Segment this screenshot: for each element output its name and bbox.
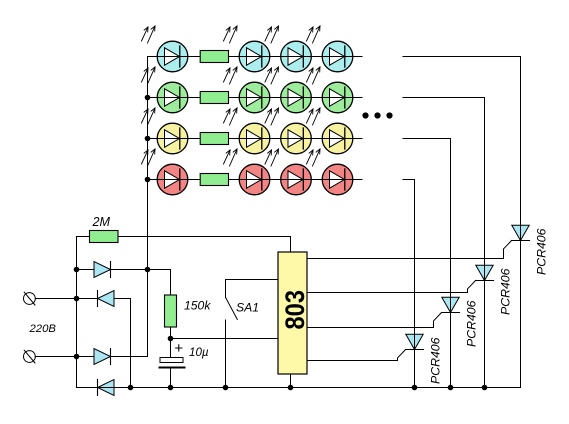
wire row3 LED2 to LED3: [270, 138, 281, 140]
svg-text:+: +: [174, 340, 183, 357]
switch SA1: [226, 280, 279, 388]
wire chip pin to VS3 gate: [307, 281, 476, 293]
LED HL4.1: [142, 149, 188, 195]
wire chip pin to VS1 gate: [307, 350, 406, 361]
svg-text:PCR406: PCR406: [464, 300, 478, 347]
svg-text:2M: 2M: [92, 215, 111, 229]
wire row1 LED3 to LED4: [311, 56, 322, 58]
wire row1 LED4 to break: [353, 56, 362, 58]
LED HL4.2: [224, 149, 270, 195]
thyristor VS1 PCR406: [406, 334, 424, 387]
LED HL1.3: [265, 26, 311, 72]
wire row4 resistor to LED2: [229, 179, 240, 181]
wire row3 resume segment to anode drop: [403, 139, 451, 298]
wire row4 LED4 to break: [353, 179, 362, 181]
resistor R1: [200, 51, 228, 63]
LED HL1.2: [224, 26, 270, 72]
wire 2M right lead to chip top pin: [118, 237, 291, 253]
wire bottom bus: [77, 387, 521, 389]
LED HL3.1: [142, 108, 188, 154]
LED HL4.4: [307, 149, 353, 195]
LED HL4.3: [265, 149, 311, 195]
wire row3 LED4 to break: [353, 138, 362, 140]
thyristor VS3 PCR406: [476, 265, 494, 387]
svg-text:SA1: SA1: [236, 300, 259, 314]
wire row4 resume segment to anode drop: [403, 180, 415, 335]
wire chip pin to VS2 gate: [307, 313, 442, 328]
wire row2 left bus to first LED: [148, 97, 158, 99]
resistor R6 150k: [165, 295, 177, 327]
LED HL1.1: [142, 26, 188, 72]
IC U1 803: [278, 252, 307, 374]
svg-text:PCR406: PCR406: [428, 337, 442, 384]
diode VD3: [77, 270, 148, 365]
ellipsis more-LEDs dots: [362, 112, 392, 118]
junction dots LED column: [145, 95, 151, 183]
diode VD1: [77, 262, 148, 278]
wire row3 LED3 to LED4: [311, 138, 322, 140]
wire row2 LED2 to LED3: [270, 97, 281, 99]
svg-text:803: 803: [280, 290, 310, 330]
wire row4 left bus to first LED: [148, 179, 158, 181]
LED HL3.3: [265, 108, 311, 154]
junction dots left rail: [74, 267, 80, 360]
wire row2 LED1 to resistor: [188, 97, 200, 99]
wire row2 LED4 to break: [353, 97, 362, 99]
wire cap junction to chip left pin: [171, 338, 279, 340]
wire row1 resume segment to anode drop: [403, 57, 521, 226]
resistor R3: [200, 133, 228, 145]
wire row2 LED3 to LED4: [311, 97, 322, 99]
wire row1 left bus to first LED: [148, 56, 158, 58]
svg-text:PCR406: PCR406: [498, 268, 512, 315]
wire row2 resistor to LED2: [229, 97, 240, 99]
wire row2 resume segment to anode drop: [403, 98, 485, 266]
LED HL2.1: [142, 67, 188, 113]
junction dots bottom bus: [128, 385, 488, 391]
diode VD4: [98, 380, 115, 396]
thyristor VS2 PCR406: [442, 297, 460, 387]
svg-text:PCR406: PCR406: [534, 228, 548, 275]
thyristor VS4 PCR406: [512, 225, 530, 387]
svg-text:150k: 150k: [184, 299, 211, 313]
terminal X1: [24, 292, 77, 305]
wire row4 LED1 to resistor: [188, 179, 200, 181]
terminal X2: [24, 350, 77, 363]
resistor R5 2M: [90, 231, 119, 243]
wire row1 resistor to LED2: [229, 56, 240, 58]
wire 2M left lead and left vertical rail: [77, 237, 90, 388]
LED HL3.4: [307, 108, 353, 154]
LED HL2.2: [224, 67, 270, 113]
wire row3 LED1 to resistor: [188, 138, 200, 140]
wire row3 resistor to LED2: [229, 138, 240, 140]
wire row4 LED3 to LED4: [311, 179, 322, 181]
wire left LED column: [147, 57, 149, 270]
svg-text:10µ: 10µ: [189, 346, 209, 359]
node positive rail junction: [145, 267, 151, 273]
node cap junction: [168, 336, 174, 342]
wire row1 LED1 to resistor: [188, 56, 200, 58]
resistor R4: [200, 174, 228, 186]
LED HL2.4: [307, 67, 353, 113]
wire row4 LED2 to LED3: [270, 179, 281, 181]
wire positive rail to 150k: [148, 270, 171, 296]
wire row3 left bus to first LED: [148, 138, 158, 140]
LED HL2.3: [265, 67, 311, 113]
svg-text:220В: 220В: [29, 323, 57, 335]
capacitor C1 10u: [160, 358, 185, 388]
wire chip pin to VS4 gate: [307, 241, 512, 259]
wire chip bottom pin: [290, 374, 292, 388]
resistor R2: [200, 92, 228, 104]
LED HL3.2: [224, 108, 270, 154]
wire 150k to cap junction: [170, 327, 172, 358]
wire row1 LED2 to LED3: [270, 56, 281, 58]
diode VD2: [77, 291, 131, 388]
LED HL1.4: [307, 26, 353, 72]
